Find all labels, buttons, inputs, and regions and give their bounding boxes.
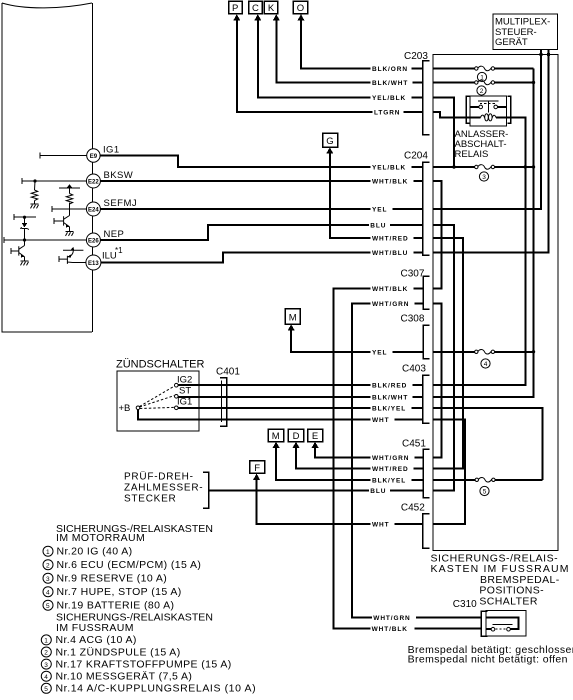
C310 switch contacts — [491, 627, 495, 631]
legend fuse 4 motorraum — [43, 586, 182, 598]
node: NEP row junction — [23, 238, 26, 241]
connector C308 bracket — [401, 314, 430, 359]
node relay vertical joins fuse3 row — [524, 165, 527, 168]
relay switch blade (dashed) — [480, 103, 497, 105]
relay switch contact leads — [470, 106, 506, 108]
relay coil winding — [481, 114, 497, 121]
arrow into F — [253, 474, 260, 480]
label LTGRN — [373, 108, 404, 116]
wire IG2 to C403 BLK/RED — [178, 384, 422, 386]
wire WHT/BLK C204 to WHT/BLK C307 — [433, 181, 442, 289]
label BLK/WHT — [371, 79, 413, 87]
fuse 3 — [475, 165, 495, 170]
label BLK/RED C403 — [371, 382, 413, 390]
bus wire multiplex to WHT/BLU row — [433, 50, 549, 253]
brake pedal switch label — [479, 574, 559, 608]
wire BLK/WHT C203 to K — [276, 19, 422, 83]
label WHT C403 — [371, 416, 395, 424]
destination box M (to C308 YEL) — [285, 309, 300, 324]
wire BKSW internal stub with pin tick — [22, 178, 87, 184]
svg-text:3: 3 — [44, 662, 48, 669]
wire BKSW to C204 WHT/BLK row — [101, 180, 423, 182]
fuse 5 — [475, 477, 495, 482]
wire NEP to C204 BLU row — [101, 225, 423, 240]
svg-text:D: D — [293, 431, 300, 442]
svg-text:ST: ST — [179, 386, 191, 397]
svg-text:M: M — [289, 313, 297, 324]
label BLK/YEL C451 — [371, 476, 412, 484]
pin E13 — [86, 255, 101, 270]
svg-text:4: 4 — [484, 361, 488, 368]
wire SEFMJ to C204 YEL row — [101, 208, 423, 210]
svg-text:WHT/GRN: WHT/GRN — [372, 455, 409, 462]
svg-text:C310: C310 — [453, 599, 477, 610]
label YEL C308 — [371, 348, 393, 356]
svg-text:NEP: NEP — [104, 229, 125, 240]
svg-text:Nr.10 MESSGERÄT (7,5 A): Nr.10 MESSGERÄT (7,5 A) — [56, 671, 193, 683]
connector C310 bracket — [453, 599, 488, 636]
svg-text:E9: E9 — [90, 154, 98, 160]
wire ILU to C204 WHT/BLU row — [101, 253, 423, 263]
fuse 2 number — [477, 86, 486, 95]
svg-text:Nr.20 IG (40 A): Nr.20 IG (40 A) — [57, 546, 133, 558]
svg-text:M: M — [272, 431, 280, 442]
arrow into M — [273, 442, 280, 448]
switch common +B contact — [136, 406, 140, 410]
wire fuse4 row YEL C308 — [433, 351, 534, 353]
brake pedal state text — [408, 644, 573, 666]
svg-text:Nr.1 ZÜNDSPULE (15 A): Nr.1 ZÜNDSPULE (15 A) — [56, 646, 181, 658]
destination box K — [264, 1, 278, 14]
label WHT/GRN C307 — [371, 300, 415, 308]
svg-text:*1: *1 — [115, 246, 123, 255]
svg-text:C452: C452 — [401, 503, 425, 514]
bus wire multiplex to YEL row — [433, 50, 541, 209]
fuse 4 number — [481, 359, 490, 368]
svg-text:WHT/BLU: WHT/BLU — [372, 250, 408, 257]
label BLK/ORN — [371, 65, 412, 73]
wire WHT/RED C204 to WHT/RED C451 — [433, 238, 463, 468]
wire WHT C403 to WHT C452 — [433, 420, 465, 524]
svg-text:Bremspedal nicht betätigt: off: Bremspedal nicht betätigt: offen — [408, 654, 568, 666]
svg-text:C203: C203 — [404, 51, 428, 62]
ECU control unit box (torn top edge) — [2, 3, 93, 332]
arrow into K — [273, 14, 280, 20]
wire NEP internal with pin tick — [4, 237, 87, 243]
wire fuse5 row BLK/YEL C451 — [433, 479, 543, 481]
legend fuse 2 fussraum — [41, 646, 180, 658]
svg-text:WHT/RED: WHT/RED — [372, 466, 409, 473]
svg-text:3: 3 — [46, 576, 50, 583]
connector C403 bracket — [402, 364, 430, 424]
switch contact ST — [175, 395, 179, 399]
svg-text:IM FUSSRAUM: IM FUSSRAUM — [56, 622, 134, 634]
connector C401 — [216, 367, 240, 427]
legend fuse 3 motorraum — [43, 573, 167, 585]
wire SEFMJ internal stub with pin tick — [52, 206, 87, 212]
arrow into C — [254, 14, 261, 20]
wire YEL/BLK C203 into relay area — [433, 98, 454, 167]
label YEL/BLK C204 — [371, 163, 412, 171]
arrow into M — [288, 324, 295, 330]
transistor Q (NEP input NPN) — [11, 240, 25, 261]
arrow into D — [293, 442, 300, 448]
svg-text:BLK/YEL: BLK/YEL — [372, 477, 406, 484]
wire BLU C451 to test connector bracket — [209, 490, 424, 492]
svg-text:WHT/BLK: WHT/BLK — [372, 626, 408, 633]
svg-text:ZÜNDSCHALTER: ZÜNDSCHALTER — [116, 359, 204, 371]
label YEL C204 — [371, 205, 393, 213]
svg-text:IG1: IG1 — [103, 145, 120, 156]
wire ILU internal — [73, 262, 87, 264]
svg-text:PRÜF-DREH-: PRÜF-DREH- — [124, 471, 194, 483]
label BLU C204 — [369, 221, 390, 229]
fuse 3 number — [479, 172, 488, 181]
svg-text:Nr.7 HUPE, STOP (15 A): Nr.7 HUPE, STOP (15 A) — [57, 586, 182, 598]
wire LTGRN C203 to relay coil — [433, 112, 470, 118]
svg-text:5: 5 — [44, 686, 48, 693]
relay switch contacts — [479, 105, 483, 109]
svg-text:5: 5 — [483, 489, 487, 496]
svg-text:BLK/WHT: BLK/WHT — [372, 394, 408, 401]
label BLK/YEL C403 — [371, 405, 412, 413]
arrow into P — [233, 14, 240, 20]
svg-text:Nr.19 BATTERIE (80 A): Nr.19 BATTERIE (80 A) — [57, 600, 175, 612]
wire fuse1 row BLK/ORN — [433, 68, 534, 70]
arrow into O — [298, 14, 305, 20]
connector C204 bracket — [404, 151, 430, 256]
bracket of test connector — [203, 472, 209, 508]
svg-text:YEL/BLK: YEL/BLK — [372, 165, 406, 172]
svg-text:IG2: IG2 — [177, 374, 192, 385]
svg-text:5: 5 — [46, 603, 50, 610]
switch wiper dashed positions — [140, 386, 175, 408]
bus wire fuse battery feed to BLK/WHT C403 — [433, 69, 534, 397]
svg-text:2: 2 — [46, 562, 50, 569]
svg-text:BLU: BLU — [370, 223, 386, 230]
label WHT/RED C451 — [371, 465, 414, 473]
C310 switch closed blade line — [492, 623, 512, 625]
svg-text:Nr.4 ACG (10 A): Nr.4 ACG (10 A) — [56, 634, 137, 646]
svg-text:WHT/RED: WHT/RED — [372, 236, 409, 243]
svg-text:YEL: YEL — [372, 207, 387, 214]
svg-text:LTGRN: LTGRN — [374, 110, 400, 117]
destination box D — [288, 429, 304, 442]
wire WHT/BLK C307 to C310 vertical — [334, 289, 423, 629]
transistor Q (ILU PNP) with supply stub — [59, 250, 83, 264]
label WHT/GRN C451 — [371, 454, 415, 462]
ground (NEP transistor emitter) — [21, 261, 29, 265]
svg-text:C451: C451 — [402, 439, 426, 450]
svg-text:E26: E26 — [88, 239, 99, 245]
svg-text:4: 4 — [44, 674, 48, 681]
svg-text:BLK/WHT: BLK/WHT — [372, 80, 408, 87]
label YEL/BLK — [371, 94, 412, 102]
svg-text:Nr.6 ECU (ECM/PCM) (15 A): Nr.6 ECU (ECM/PCM) (15 A) — [57, 559, 202, 571]
wire WHT/BLK C310 — [372, 628, 482, 630]
svg-text:YEL/BLK: YEL/BLK — [372, 95, 406, 102]
arrow into E — [312, 442, 319, 448]
label WHT/BLK C307 — [371, 285, 414, 293]
wire ST to C403 BLK/WHT — [178, 396, 422, 398]
svg-text:WHT: WHT — [372, 521, 390, 528]
wire relay coil to fuse3 row and BLK/RED C403 — [433, 118, 525, 386]
destination box M (to C451 BLK/YEL) — [268, 429, 284, 442]
svg-text:P: P — [232, 3, 238, 14]
ignition switch ZUENDSCHALTER box — [117, 371, 199, 431]
brake pedal position switch box — [486, 611, 526, 637]
svg-text:Nr.17 KRAFTSTOFFPUMPE (15 A): Nr.17 KRAFTSTOFFPUMPE (15 A) — [56, 658, 232, 670]
wire IG1 to C204 YEL/BLK row — [100, 156, 423, 168]
power symbol (SEFMJ supply T-bar with up arrow) — [59, 188, 80, 193]
svg-text:WHT/BLK: WHT/BLK — [372, 179, 408, 186]
label WHT/BLU C204 — [371, 249, 414, 257]
wire fuse2 row BLK/WHT — [433, 82, 534, 84]
wire BLK/YEL C451 to M — [276, 447, 423, 480]
svg-text:GERÄT: GERÄT — [495, 37, 528, 48]
test tachometer connector label PRUEF-DREH-ZAHLMESSER-STECKER — [124, 471, 203, 505]
diode D (NEP zener) — [20, 217, 28, 240]
svg-text:WHT/GRN: WHT/GRN — [372, 301, 409, 308]
svg-text:4: 4 — [46, 589, 50, 596]
wire WHT/GRN C307 to C310 vertical — [352, 304, 423, 618]
legend fuse 1 fussraum — [41, 634, 136, 646]
label WHT C452 — [371, 520, 395, 528]
wire labels layer — [369, 65, 416, 633]
svg-text:SEFMJ: SEFMJ — [104, 198, 138, 209]
destination box O — [293, 1, 308, 14]
resistor R (SEFMJ collector load) — [66, 194, 72, 210]
wire BLK/YEL C403 to fuse5 — [433, 408, 543, 480]
svg-text:2: 2 — [480, 88, 484, 95]
svg-text:WHT/GRN: WHT/GRN — [373, 615, 410, 622]
wire IG1 internal stub with pin tick — [40, 153, 87, 159]
wire G box to C204 WHT/RED row — [330, 152, 423, 238]
connector C307 bracket — [401, 269, 430, 310]
pin E24 — [86, 202, 100, 216]
svg-text:C308: C308 — [401, 314, 425, 325]
label WHT/RED C204 — [371, 234, 414, 242]
label WHT/BLK C204 — [371, 177, 414, 185]
fuse 4 — [475, 349, 495, 354]
node bus joins fuse3 row — [532, 165, 535, 168]
transistor Q (SEFMJ driver NPN) — [54, 209, 70, 232]
svg-text:IG1: IG1 — [177, 397, 192, 408]
wire IG1 to C403 BLK/YEL — [178, 407, 422, 409]
legend fuse 3 fussraum — [41, 658, 231, 670]
node YEL/BLK vertical joins fuse3 row — [452, 165, 455, 168]
wire WHT/GRN C451 to E — [315, 447, 423, 458]
svg-text:Nr.9 RESERVE (10 A): Nr.9 RESERVE (10 A) — [57, 573, 168, 585]
starter cut relay ANLASSER-ABSCHALT-RELAIS — [466, 96, 510, 126]
svg-text:Nr.14 A/C-KUPPLUNGSRELAIS (10: Nr.14 A/C-KUPPLUNGSRELAIS (10 A) — [56, 683, 257, 695]
resistor R (BKSW pull-down) — [31, 181, 37, 204]
connector C203 bracket — [404, 51, 430, 135]
relay armature T-bar — [478, 101, 499, 112]
wire YEL/BLK C203 to C — [258, 19, 423, 98]
svg-text:YEL: YEL — [372, 349, 387, 356]
fuse box label bottom — [431, 553, 570, 576]
svg-text:K: K — [268, 3, 275, 14]
svg-text:WHT: WHT — [372, 417, 390, 424]
destination box E — [308, 429, 323, 442]
pin E22 — [86, 174, 100, 188]
svg-text:WHT/BLK: WHT/BLK — [372, 286, 408, 293]
wire BLK/ORN C203 to O — [301, 19, 423, 69]
svg-text:C307: C307 — [401, 269, 425, 280]
label BLU C451 — [369, 487, 390, 495]
svg-text:IM MOTORRAUM: IM MOTORRAUM — [56, 532, 145, 544]
connector C451 bracket — [402, 439, 430, 498]
node: NEP zener top stub with pin tick — [14, 214, 36, 220]
C310 switch open blade (dashed) — [495, 628, 506, 630]
svg-text:BLK/RED: BLK/RED — [372, 383, 407, 390]
svg-text:BLK/ORN: BLK/ORN — [372, 66, 408, 73]
svg-text:2: 2 — [44, 650, 48, 657]
wire BLU C204 to BLU C451 — [433, 225, 454, 491]
connector C452 bracket — [401, 503, 430, 549]
legend fuse 5 motorraum — [43, 600, 174, 612]
svg-text:SCHALTER: SCHALTER — [479, 596, 537, 608]
svg-text:C204: C204 — [404, 151, 428, 162]
node fuse2/bus junction — [532, 81, 535, 84]
wire +B feed — [138, 410, 423, 420]
svg-text:BLK/YEL: BLK/YEL — [372, 406, 406, 413]
destination box G — [323, 133, 338, 147]
C310 switch internal wiring — [486, 617, 518, 629]
node: BKSW resistor tap junction — [33, 179, 36, 182]
svg-text:STECKER: STECKER — [124, 494, 176, 505]
svg-text:E24: E24 — [88, 208, 99, 214]
wire fuse3 row YEL/BLK C204 — [433, 166, 534, 168]
svg-text:BKSW: BKSW — [104, 170, 134, 181]
svg-text:F: F — [254, 463, 260, 474]
legend fuse 1 motorraum — [43, 546, 133, 558]
svg-text:3: 3 — [482, 174, 486, 181]
svg-text:G: G — [326, 136, 333, 147]
pin E9 — [87, 149, 100, 162]
fuse 1 number — [477, 72, 486, 81]
wire WHT C452 to F — [257, 479, 423, 524]
svg-text:E13: E13 — [88, 261, 99, 267]
legend fuse 5 fussraum — [41, 683, 256, 695]
svg-text:1: 1 — [46, 549, 50, 556]
wire WHT/GRN C307 to WHT/GRN C451 — [433, 304, 442, 458]
switch contact IG1 — [175, 406, 179, 410]
svg-text:+B: +B — [119, 403, 131, 414]
svg-text:C403: C403 — [402, 364, 426, 375]
destination box F — [250, 461, 265, 474]
destination box P — [229, 1, 243, 14]
wire WHT/GRN C310 — [373, 616, 481, 618]
svg-text:1: 1 — [44, 638, 48, 645]
wire LTGRN C203 to P — [237, 19, 423, 112]
arrow into G — [326, 147, 333, 153]
label BLK/WHT C403 — [371, 393, 413, 401]
destination box C — [249, 1, 263, 14]
wire WHT/RED C451 to D — [296, 447, 423, 469]
svg-text:RELAIS: RELAIS — [455, 149, 489, 160]
ground (BKSW resistor) — [31, 204, 39, 208]
label WHT/GRN C310 — [372, 614, 416, 622]
svg-text:BLU: BLU — [370, 488, 386, 495]
svg-text:C401: C401 — [216, 367, 240, 378]
node bus joins fuse4 row — [532, 350, 535, 353]
svg-text:O: O — [297, 3, 304, 14]
fuse 2 — [475, 80, 495, 85]
node multiplex bus at box edge — [540, 53, 543, 56]
ground (SEFMJ transistor emitter) — [66, 232, 74, 236]
fuse 5 number — [480, 486, 489, 495]
svg-text:C: C — [252, 3, 259, 14]
multiplex control unit box — [493, 14, 558, 50]
svg-text:ZAHLMESSER-: ZAHLMESSER- — [124, 483, 203, 494]
pin E26 — [86, 233, 100, 247]
legend text block — [41, 523, 256, 695]
svg-text:E: E — [312, 431, 318, 442]
fuse 1 — [475, 66, 495, 71]
legend fuse 4 fussraum — [41, 671, 192, 683]
wire YEL C308 to M — [291, 329, 423, 352]
label WHT/BLK C310 — [370, 625, 414, 633]
svg-text:E22: E22 — [88, 180, 99, 186]
switch contact IG2 — [175, 383, 179, 387]
relay coil leads — [470, 117, 480, 119]
fuse/relay box (Fussraum) outline — [433, 54, 558, 550]
legend fuse 2 motorraum — [43, 559, 201, 571]
relay label — [455, 129, 509, 160]
